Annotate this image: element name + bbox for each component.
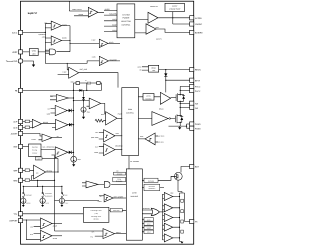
svg-text:Fast-Chg/: Fast-Chg/ — [32, 147, 38, 149]
svg-text:EN_CHARGE: EN_CHARGE — [130, 161, 139, 163]
svg-text:(30 min): (30 min) — [94, 219, 100, 221]
svg-text:Termination: Termination — [116, 180, 123, 182]
svg-text:VREF: VREF — [170, 192, 174, 194]
svg-text:ACDRV: ACDRV — [195, 17, 202, 20]
svg-text:CONTROL: CONTROL — [122, 24, 131, 27]
svg-text:VREF: VREF — [12, 51, 18, 54]
svg-text:SLEEP: SLEEP — [147, 228, 151, 230]
svg-text:BTST: BTST — [195, 79, 201, 82]
svg-text:bq24717: bq24717 — [28, 12, 38, 15]
svg-text:ACOV: ACOV — [147, 219, 151, 221]
svg-text:Discharge: Discharge — [26, 195, 32, 197]
svg-text:(TTC): (TTC) — [94, 213, 98, 215]
svg-text:+80mV: +80mV — [42, 37, 47, 39]
svg-text:TTC: TTC — [90, 236, 93, 238]
svg-text:CE: CE — [57, 136, 59, 138]
svg-text:Qualification: Qualification — [45, 196, 52, 198]
svg-text:IFAULT: IFAULT — [65, 202, 69, 204]
svg-text:PGND: PGND — [195, 128, 201, 131]
svg-text:2V: 2V — [100, 196, 102, 198]
svg-text:V(SRP-SRN): V(SRP-SRN) — [156, 136, 164, 138]
svg-text:ACP: ACP — [13, 121, 18, 124]
svg-text:ACDET: ACDET — [11, 133, 18, 136]
svg-text:Detector: Detector — [32, 153, 37, 155]
svg-text:PVCC: PVCC — [195, 90, 201, 93]
svg-text:20µA: 20µA — [78, 159, 81, 161]
svg-text:20x: 20x — [36, 172, 39, 174]
svg-text:SUSPEND: SUSPEND — [143, 208, 150, 210]
svg-text:BATDRV: BATDRV — [195, 32, 203, 35]
svg-text:125mV: 125mV — [32, 139, 37, 141]
svg-text:Timer Fault: Timer Fault — [113, 210, 120, 212]
svg-text:Qualification: Qualification — [148, 188, 155, 190]
svg-text:SYSTEM: SYSTEM — [122, 13, 130, 16]
svg-text:POWER: POWER — [123, 17, 130, 20]
svg-text:UVLO: UVLO — [147, 232, 151, 234]
svg-text:SW: SW — [195, 107, 198, 110]
svg-text:VSRN-VBAT: VSRN-VBAT — [156, 142, 164, 144]
svg-text:Precharge Timer: Precharge Timer — [91, 216, 102, 218]
svg-text:CMSRC+5V: CMSRC+5V — [150, 6, 158, 8]
svg-text:CMPSET: CMPSET — [9, 220, 18, 223]
svg-text:PVCC: PVCC — [195, 86, 201, 89]
svg-text:VSRN: VSRN — [98, 201, 102, 203]
svg-text:AVCC: AVCC — [12, 32, 18, 35]
svg-text:0.2V: 0.2V — [95, 146, 98, 148]
svg-text:20µA: 20µA — [87, 112, 90, 114]
svg-text:2.8V: 2.8V — [50, 96, 53, 98]
svg-text:7mV: 7mV — [95, 132, 98, 134]
svg-text:SW: SW — [195, 102, 198, 105]
svg-text:REGN: REGN — [195, 69, 201, 72]
svg-text:Pre-Chg: Pre-Chg — [32, 150, 37, 152]
svg-text:ACN: ACN — [13, 127, 18, 130]
svg-text:PGND: PGND — [195, 123, 201, 126]
svg-text:TTC: TTC — [14, 213, 18, 216]
svg-text:Thermal PAD: Thermal PAD — [6, 60, 18, 63]
svg-text:ACUV: ACUV — [147, 224, 151, 226]
svg-text:IDSCHG: IDSCHG — [26, 202, 31, 204]
svg-text:Charge: Charge — [117, 178, 121, 180]
svg-text:Fast charge Timer: Fast charge Timer — [91, 210, 103, 212]
svg-text:SRN: SRN — [13, 179, 18, 182]
svg-text:SHIFTER: SHIFTER — [145, 98, 151, 100]
svg-text:Termination: Termination — [149, 186, 156, 188]
svg-text:LOWV: LOWV — [37, 158, 41, 160]
svg-text:Termination: Termination — [45, 193, 52, 195]
svg-text:V(WAKEUP): V(WAKEUP) — [38, 34, 46, 36]
svg-text:LEVEL: LEVEL — [146, 96, 151, 98]
svg-text:Discharge: Discharge — [148, 180, 154, 182]
svg-text:ITERM: ITERM — [45, 202, 49, 204]
svg-text:ACGOOD: ACGOOD — [117, 174, 123, 176]
svg-text:SRP: SRP — [13, 169, 18, 172]
svg-text:CMSRC: CMSRC — [195, 23, 203, 26]
svg-text:GND: GND — [47, 113, 50, 115]
svg-text:SELECTOR: SELECTOR — [121, 20, 131, 23]
svg-text:VSRN: VSRN — [94, 152, 98, 154]
